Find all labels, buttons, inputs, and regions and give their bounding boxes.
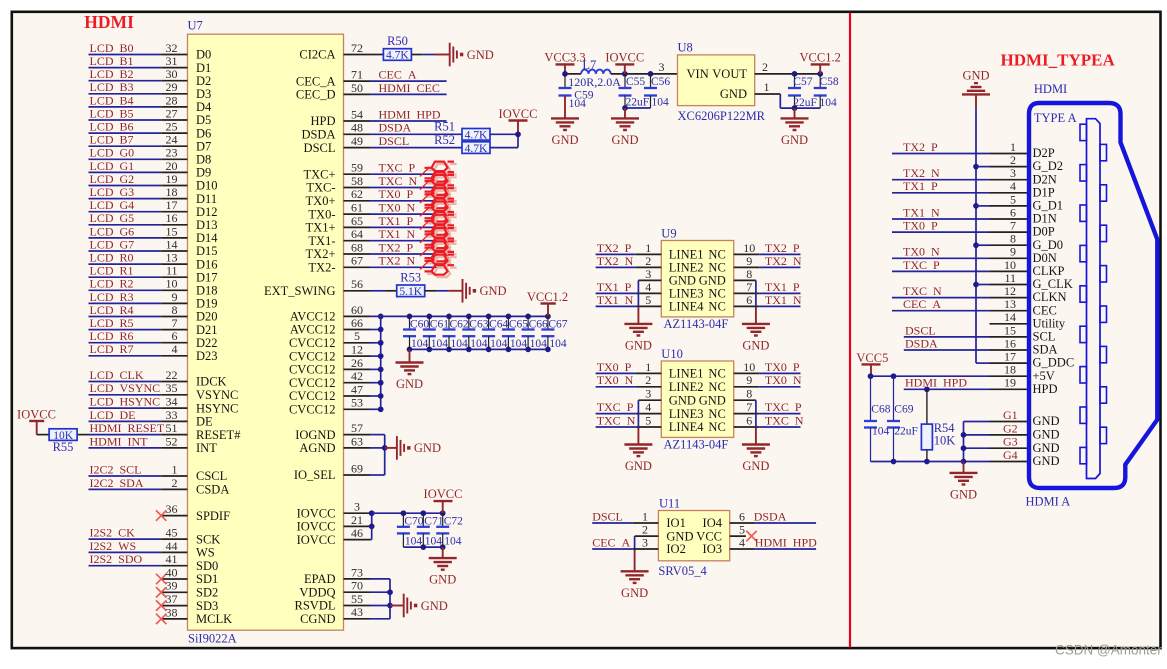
U11 pin2 GND stub <box>635 535 659 537</box>
svg-text:AVCC12: AVCC12 <box>290 310 336 324</box>
svg-text:19: 19 <box>166 172 178 186</box>
svg-text:RSVDL: RSVDL <box>295 599 336 613</box>
svg-text:TXC N: TXC N <box>597 413 636 427</box>
svg-text:HDMI HPD: HDMI HPD <box>755 535 817 549</box>
wire IOVCC to R55 <box>37 434 50 436</box>
svg-text:6: 6 <box>172 329 178 343</box>
svg-text:CSCL: CSCL <box>196 469 227 483</box>
svg-text:D1N: D1N <box>1033 212 1057 226</box>
svg-text:TX1 N: TX1 N <box>903 205 940 219</box>
svg-text:C72: C72 <box>444 516 463 528</box>
svg-text:G1: G1 <box>1003 408 1018 422</box>
svg-text:31: 31 <box>166 54 178 68</box>
net TX2 N wire <box>370 266 447 268</box>
U10 left wire TX0 P <box>596 372 636 374</box>
svg-text:GND: GND <box>625 459 652 473</box>
svg-text:46: 46 <box>351 526 363 540</box>
svg-text:LCD G1: LCD G1 <box>90 159 135 173</box>
ic U10 AZ1143-04F body <box>661 361 733 437</box>
svg-text:GND: GND <box>480 284 507 298</box>
svg-text:104: 104 <box>652 96 670 108</box>
wire AVCC bus vertical <box>370 329 381 331</box>
svg-text:LCD G0: LCD G0 <box>90 146 135 160</box>
svg-text:CEC_A: CEC_A <box>296 74 336 88</box>
svg-text:10: 10 <box>743 360 755 374</box>
net TXC N wire <box>370 187 447 189</box>
wire VCC1.2 rail <box>370 315 548 317</box>
U7 left pin 24 D7 net LCD B7 <box>89 145 162 147</box>
svg-text:42: 42 <box>351 369 363 383</box>
svg-text:GND: GND <box>1033 428 1060 442</box>
svg-text:IOVCC: IOVCC <box>499 107 538 121</box>
connector pin 17 G_DDC <box>990 362 1030 364</box>
svg-text:NC: NC <box>708 367 725 381</box>
svg-text:3: 3 <box>354 500 360 514</box>
svg-text:TX0 P: TX0 P <box>765 360 800 374</box>
U7 right pin 12 CVCC12 <box>344 355 371 357</box>
svg-text:15: 15 <box>166 224 178 238</box>
svg-text:D5: D5 <box>196 113 211 127</box>
wire G bus vertical <box>963 422 965 462</box>
U7 right pin 59 TXC+ <box>344 173 371 175</box>
svg-text:27: 27 <box>166 106 178 120</box>
svg-text:66: 66 <box>351 316 363 330</box>
svg-text:HSYNC: HSYNC <box>196 401 238 415</box>
svg-text:49: 49 <box>351 134 363 148</box>
U9 right wire TX1 P <box>734 292 760 294</box>
ic U8 XC6206P122MR body <box>678 55 755 106</box>
svg-text:VCC: VCC <box>696 529 722 543</box>
svg-text:GND: GND <box>414 441 441 455</box>
svg-text:DSDA: DSDA <box>754 509 787 523</box>
svg-text:SD3: SD3 <box>196 599 218 613</box>
svg-text:TX0-: TX0- <box>308 207 335 221</box>
svg-text:104: 104 <box>444 536 462 548</box>
ground right of U9 <box>742 323 770 325</box>
svg-text:D6: D6 <box>196 126 211 140</box>
svg-text:IOGND: IOGND <box>295 428 335 442</box>
net DSCL wire to U11 pin1 <box>592 522 633 524</box>
svg-text:TX0 N: TX0 N <box>597 373 634 387</box>
svg-text:6: 6 <box>1010 205 1016 219</box>
ground at C57 <box>794 108 796 118</box>
svg-text:1: 1 <box>642 509 648 523</box>
connector pin 16 SDA <box>990 349 1030 351</box>
svg-text:8: 8 <box>1010 232 1016 246</box>
capacitor C69 22uF <box>893 376 895 421</box>
svg-text:RESET#: RESET# <box>196 428 241 442</box>
U7 right pin 57 IOGND <box>344 434 371 436</box>
svg-text:1: 1 <box>645 360 651 374</box>
svg-text:72: 72 <box>351 41 363 55</box>
wire R51 to IOVCC stem <box>490 133 518 135</box>
svg-text:39: 39 <box>166 579 178 593</box>
net TX2 P wire <box>370 253 447 255</box>
connector contacts <box>1080 124 1107 464</box>
svg-text:4: 4 <box>645 400 651 414</box>
capacitor C65 104 <box>507 316 509 329</box>
svg-text:2: 2 <box>642 523 648 537</box>
U7 left pin 9 D19 net LCD R3 <box>89 302 162 304</box>
svg-text:NC: NC <box>708 300 725 314</box>
svg-text:7: 7 <box>172 316 178 330</box>
svg-text:LCD B6: LCD B6 <box>90 120 134 134</box>
capacitor C67 104 <box>547 316 549 329</box>
svg-text:TX0 P: TX0 P <box>597 360 632 374</box>
svg-text:LCD R7: LCD R7 <box>90 342 134 356</box>
svg-text:TX1 P: TX1 P <box>597 280 632 294</box>
U7 left pin 28 D4 net LCD B4 <box>89 106 162 108</box>
svg-text:104: 104 <box>411 338 429 350</box>
svg-text:GND: GND <box>781 133 808 147</box>
wire R52 up to junction <box>490 147 518 149</box>
junction HDMI_HPD R54 <box>924 386 930 392</box>
svg-text:DSDA: DSDA <box>379 121 412 135</box>
svg-text:HDMI: HDMI <box>84 12 134 32</box>
svg-text:D3: D3 <box>196 87 211 101</box>
U7 right pin 49 DSCL <box>344 147 371 149</box>
svg-text:43: 43 <box>351 605 363 619</box>
svg-text:TX2 N: TX2 N <box>379 254 416 268</box>
svg-text:104: 104 <box>510 338 528 350</box>
svg-text:D0P: D0P <box>1033 225 1055 239</box>
U7 left pin 33 DE net LCD DE <box>89 420 162 422</box>
svg-text:GND: GND <box>742 338 769 352</box>
net DSDA wire U11 pin6 <box>730 522 756 524</box>
svg-text:G4: G4 <box>1003 448 1018 462</box>
U10 pin3 GND stub <box>638 399 661 401</box>
svg-text:U8: U8 <box>678 41 693 55</box>
svg-text:TX1 P: TX1 P <box>903 179 938 193</box>
capacitor C60 104 <box>409 316 411 329</box>
U7 right pin 5 CVCC12 <box>344 342 371 344</box>
svg-text:LCD G2: LCD G2 <box>90 172 135 186</box>
capacitor C71 104 <box>422 513 424 527</box>
svg-text:G_D0: G_D0 <box>1033 238 1064 252</box>
svg-text:17: 17 <box>1004 350 1016 364</box>
svg-text:1: 1 <box>172 462 178 476</box>
svg-text:LINE1: LINE1 <box>669 367 704 381</box>
U9 left wire TX1 N <box>596 305 636 307</box>
svg-text:4.7K: 4.7K <box>465 143 488 155</box>
svg-text:3: 3 <box>642 535 648 549</box>
svg-text:22uF: 22uF <box>894 425 918 437</box>
ground at C55 <box>624 108 626 118</box>
svg-text:LCD G5: LCD G5 <box>90 211 135 225</box>
svg-text:57: 57 <box>351 421 363 435</box>
svg-text:17: 17 <box>166 198 178 212</box>
power VCC3.3 <box>556 63 575 65</box>
svg-text:LINE4: LINE4 <box>669 420 704 434</box>
svg-text:TXC P: TXC P <box>597 400 634 414</box>
svg-text:HPD: HPD <box>310 114 335 128</box>
svg-text:36: 36 <box>166 502 178 516</box>
svg-text:21: 21 <box>351 513 363 527</box>
svg-text:3: 3 <box>645 267 651 281</box>
svg-text:TX1 N: TX1 N <box>765 293 802 307</box>
svg-text:TYPE A: TYPE A <box>1034 111 1077 125</box>
svg-text:R51: R51 <box>434 120 455 134</box>
U9 left wire TX2 P <box>596 253 636 255</box>
connector pin 4 D1P <box>990 192 1030 194</box>
svg-text:73: 73 <box>351 565 363 579</box>
svg-text:SDA: SDA <box>1033 343 1058 357</box>
svg-text:13: 13 <box>166 251 178 265</box>
svg-text:50: 50 <box>351 81 363 95</box>
svg-text:CLKP: CLKP <box>1033 264 1065 278</box>
svg-text:TXC N: TXC N <box>379 174 418 188</box>
resistor R54 10K <box>926 389 928 424</box>
svg-text:DE: DE <box>196 415 213 429</box>
red section divider <box>849 13 851 648</box>
svg-text:4: 4 <box>645 280 651 294</box>
svg-text:TXC-: TXC- <box>306 181 335 195</box>
svg-text:LINE2: LINE2 <box>669 261 704 275</box>
svg-text:VCC3.3: VCC3.3 <box>544 51 585 65</box>
svg-text:IO4: IO4 <box>703 516 723 530</box>
svg-text:56: 56 <box>351 277 363 291</box>
svg-text:104: 104 <box>405 536 423 548</box>
svg-text:5: 5 <box>354 329 360 343</box>
svg-text:67: 67 <box>351 254 363 268</box>
svg-text:LCD R6: LCD R6 <box>90 329 134 343</box>
net HDMI_HPD wire U11 pin4 <box>730 548 756 550</box>
U7 left pin 18 D11 net LCD G3 <box>89 198 162 200</box>
U7 right pin 64 TX1- <box>344 240 371 242</box>
svg-text:18: 18 <box>1004 363 1016 377</box>
svg-text:60: 60 <box>351 303 363 317</box>
svg-text:HDMI CEC: HDMI CEC <box>379 81 440 95</box>
U7 right pin 58 TXC- <box>344 187 371 189</box>
svg-text:22: 22 <box>166 368 178 382</box>
svg-text:GND: GND <box>621 586 648 600</box>
svg-text:TX2+: TX2+ <box>306 247 336 261</box>
connector pin 9 D0N <box>990 257 1030 259</box>
connector ground pin G4 <box>964 461 990 463</box>
U7 right pin 42 CVCC12 <box>344 382 371 384</box>
svg-text:HDMI HPD: HDMI HPD <box>379 107 441 121</box>
svg-text:HPD: HPD <box>1033 382 1058 396</box>
svg-text:TX1 P: TX1 P <box>765 280 800 294</box>
svg-text:2: 2 <box>645 373 651 387</box>
U7 right pin 72 CI2CA <box>344 54 371 56</box>
svg-text:D2: D2 <box>196 74 211 88</box>
U7 right pin 3 IOVCC <box>344 512 371 514</box>
svg-text:GND: GND <box>1033 454 1060 468</box>
svg-text:CEC A: CEC A <box>903 297 941 311</box>
svg-text:G_D2: G_D2 <box>1033 159 1064 173</box>
capacitor C57 22uF <box>794 74 796 88</box>
svg-text:12: 12 <box>1004 284 1016 298</box>
svg-text:69: 69 <box>351 461 363 475</box>
svg-text:1: 1 <box>764 80 770 94</box>
svg-text:TX2 P: TX2 P <box>765 241 800 255</box>
svg-text:GND: GND <box>551 133 578 147</box>
U7 left pin 6 D22 net LCD R6 <box>89 342 162 344</box>
svg-text:LCD G7: LCD G7 <box>90 237 135 251</box>
U9 right wire TX2 P <box>734 253 760 255</box>
U10 right wire TX0 P <box>734 372 760 374</box>
svg-text:LCD DE: LCD DE <box>90 408 136 422</box>
capacitor C64 104 <box>488 316 490 329</box>
net DSDA wire pin48 <box>370 133 462 135</box>
svg-text:70: 70 <box>351 579 363 593</box>
connector pin 7 D0P <box>990 231 1030 233</box>
svg-text:CLKN: CLKN <box>1033 290 1067 304</box>
svg-text:2: 2 <box>762 60 768 74</box>
svg-text:CVCC12: CVCC12 <box>289 349 336 363</box>
svg-text:G_CLK: G_CLK <box>1033 277 1073 291</box>
svg-text:24: 24 <box>166 133 178 147</box>
U7 left pin 4 D23 net LCD R7 <box>89 355 162 357</box>
svg-text:LINE4: LINE4 <box>669 300 704 314</box>
svg-text:104: 104 <box>820 97 838 109</box>
svg-text:19: 19 <box>1004 376 1016 390</box>
svg-text:2: 2 <box>1010 153 1016 167</box>
svg-text:TX2 N: TX2 N <box>597 254 634 268</box>
svg-text:6: 6 <box>739 509 745 523</box>
svg-text:D13: D13 <box>196 218 218 232</box>
U9 left wire TX2 N <box>596 266 636 268</box>
svg-text:55: 55 <box>351 592 363 606</box>
wire EPAD group vertical <box>370 578 390 580</box>
wire VCC3.3 to L7 <box>565 73 581 75</box>
svg-text:10: 10 <box>166 277 178 291</box>
U7 left pin 22 IDCK net LCD CLK <box>89 381 162 383</box>
svg-text:120R,2.0A: 120R,2.0A <box>568 75 621 89</box>
svg-text:4: 4 <box>739 535 745 549</box>
svg-text:2: 2 <box>645 254 651 268</box>
wire L7 to U8 VIN <box>611 73 678 75</box>
svg-text:LCD B0: LCD B0 <box>90 41 134 55</box>
U7 left pin 36 SPDIF no-connect <box>161 515 187 517</box>
svg-text:CGND: CGND <box>300 612 335 626</box>
svg-text:AVCC12: AVCC12 <box>290 323 336 337</box>
svg-text:5: 5 <box>645 413 651 427</box>
svg-text:GND: GND <box>625 338 652 352</box>
ground at AGND <box>396 436 398 460</box>
svg-text:45: 45 <box>166 526 178 540</box>
U9 right wire TX1 N <box>734 305 760 307</box>
svg-text:L7: L7 <box>582 58 596 72</box>
svg-text:D11: D11 <box>196 192 217 206</box>
U7 left pin 7 D21 net LCD R5 <box>89 329 162 331</box>
svg-text:34: 34 <box>166 395 178 409</box>
svg-text:CEC: CEC <box>1033 303 1057 317</box>
diff-pair marker TX1 N <box>427 231 457 251</box>
net HDMI_HPD wire pin54 <box>370 120 447 122</box>
svg-text:TXC P: TXC P <box>765 400 802 414</box>
net TXC P wire <box>370 173 447 175</box>
svg-text:DSCL: DSCL <box>592 509 623 523</box>
connector pin 6 D1N <box>990 218 1030 220</box>
U7 right pin 47 CVCC12 <box>344 395 371 397</box>
svg-text:7: 7 <box>746 280 752 294</box>
ground at C59 <box>564 96 566 119</box>
svg-text:GND: GND <box>950 487 977 501</box>
svg-text:104: 104 <box>451 338 469 350</box>
U7 left pin 11 D17 net LCD R1 <box>89 276 162 278</box>
svg-text:C55: C55 <box>626 76 645 88</box>
svg-text:104: 104 <box>872 425 890 437</box>
svg-text:63: 63 <box>351 434 363 448</box>
diff-pair marker TX2 N <box>427 257 457 277</box>
svg-text:IOVCC: IOVCC <box>297 520 336 534</box>
svg-text:13: 13 <box>1004 297 1016 311</box>
svg-text:VSYNC: VSYNC <box>196 388 238 402</box>
svg-text:65: 65 <box>351 214 363 228</box>
svg-text:14: 14 <box>166 237 178 251</box>
svg-text:CVCC12: CVCC12 <box>289 376 336 390</box>
U7 right pin 68 TX2+ <box>344 253 371 255</box>
svg-text:DSDA: DSDA <box>301 128 335 142</box>
svg-text:40: 40 <box>166 565 178 579</box>
svg-text:71: 71 <box>351 68 363 82</box>
svg-text:NC: NC <box>708 287 725 301</box>
svg-text:CVCC12: CVCC12 <box>289 336 336 350</box>
net TX1 P wire <box>370 226 447 228</box>
svg-text:LINE2: LINE2 <box>669 380 704 394</box>
svg-text:104: 104 <box>569 98 587 110</box>
connector pin 19 HPD <box>990 388 1030 390</box>
svg-text:CEC_D: CEC_D <box>296 88 336 102</box>
U7 left pin 34 HSYNC net LCD HSYNC <box>89 407 162 409</box>
diff-pair marker TX0 P <box>427 191 457 211</box>
svg-text:LCD R4: LCD R4 <box>90 303 134 317</box>
svg-text:NC: NC <box>708 380 725 394</box>
svg-text:G_D1: G_D1 <box>1033 199 1064 213</box>
svg-text:68: 68 <box>351 240 363 254</box>
U10 left wire TX0 N <box>596 386 636 388</box>
svg-text:HDMI INT: HDMI INT <box>90 434 149 448</box>
svg-text:LCD VSYNC: LCD VSYNC <box>90 381 161 395</box>
wire R50 to GND <box>411 54 422 56</box>
svg-text:4.7K: 4.7K <box>386 50 409 62</box>
svg-text:TX1 N: TX1 N <box>379 227 416 241</box>
svg-text:C58: C58 <box>820 76 839 88</box>
U7 left pin 45 SCK net I2S2 CK <box>89 538 162 540</box>
svg-text:LCD R5: LCD R5 <box>90 316 134 330</box>
ic U9 AZ1143-04F body <box>661 241 733 317</box>
svg-text:CVCC12: CVCC12 <box>289 363 336 377</box>
diff-pair marker TX1 P <box>427 217 457 237</box>
U7 left pin 52 INT net HDMI INT <box>89 447 162 449</box>
svg-text:GND: GND <box>699 274 726 288</box>
U7 right pin 71 CEC_A <box>344 80 371 82</box>
capacitor C63 104 <box>468 316 470 329</box>
connector pin 3 D2N <box>990 179 1030 181</box>
svg-text:GND: GND <box>421 599 448 613</box>
svg-text:11: 11 <box>1004 271 1016 285</box>
svg-text:NC: NC <box>708 248 725 262</box>
svg-text:G2: G2 <box>1003 421 1018 435</box>
svg-text:VIN: VIN <box>687 67 709 81</box>
ic U11 SRV05_4 body <box>658 511 729 561</box>
svg-text:EXT_SWING: EXT_SWING <box>264 284 336 298</box>
U7 left pin 20 D9 net LCD G1 <box>89 171 162 173</box>
svg-text:4.7K: 4.7K <box>465 130 488 142</box>
svg-text:LCD HSYNC: LCD HSYNC <box>90 395 161 409</box>
svg-text:10: 10 <box>743 241 755 255</box>
svg-text:TX2 N: TX2 N <box>765 254 802 268</box>
capacitor C55 22uF <box>624 74 626 88</box>
svg-text:C57: C57 <box>793 76 812 88</box>
svg-text:WS: WS <box>196 546 215 560</box>
U7 left pin 37 SD3 no-connect <box>161 605 187 607</box>
svg-text:18: 18 <box>166 185 178 199</box>
resistor R52 4.7K <box>462 142 490 154</box>
capacitor C68 104 <box>870 376 872 421</box>
